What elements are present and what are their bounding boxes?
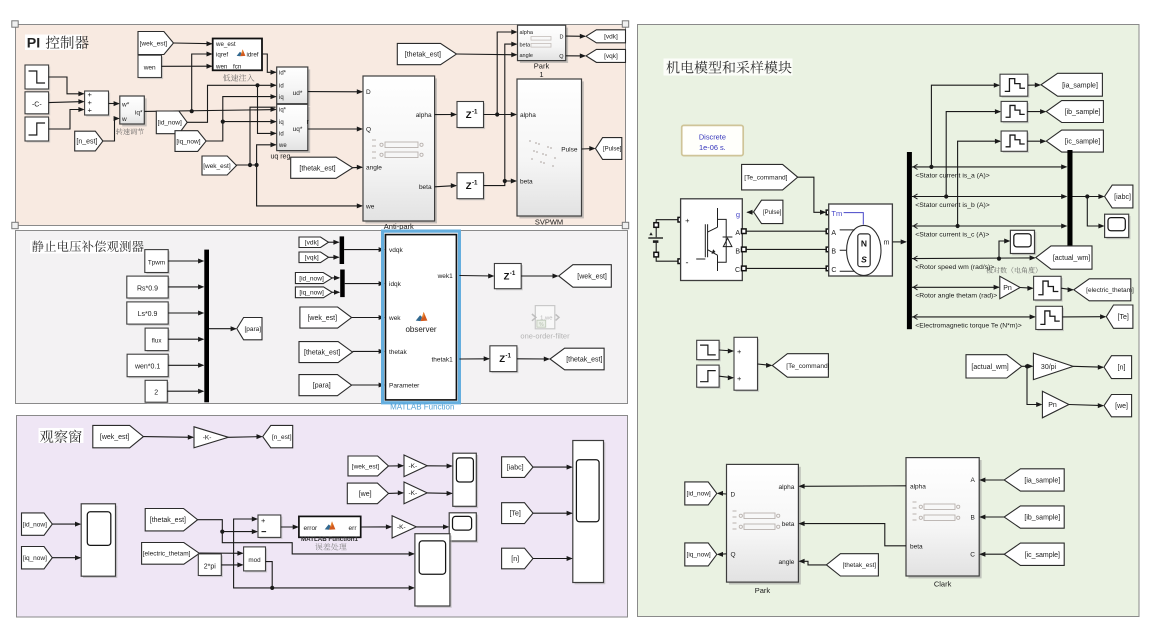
constant 2*pi [200,556,223,578]
svg-text:w: w [121,116,127,123]
svg-text:[Te]: [Te] [1118,314,1129,321]
zero-order hold ib [1003,103,1029,123]
goto tag iq_now p4 [685,543,717,566]
mod block [245,549,267,573]
svg-text:[thetak_est]: [thetak_est] [843,562,877,569]
svg-text:id*: id* [279,71,287,77]
park2 icon [733,511,780,530]
wire mod to scope and sum plus [266,562,414,588]
svg-text:one-order-filter: one-order-filter [520,331,570,340]
svg-text:[iq_now]: [iq_now] [687,552,711,559]
svg-text:<Electromagnetic torque Te (N*: <Electromagnetic torque Te (N*m)> [915,322,1021,329]
svg-text:fcn: fcn [233,64,242,71]
svg-text:S: S [861,255,867,265]
svg-text:Discrete: Discrete [699,132,726,141]
constant -C- [27,93,51,115]
ud reg block [279,69,310,106]
bus signal rotor angle wire [912,286,999,288]
from tag wek_est p3 mid [348,456,389,476]
sum block error [260,517,283,539]
svg-text:[ic_sample]: [ic_sample] [1065,139,1100,146]
svg-text:B: B [971,515,975,522]
wire gain to n_est [228,436,261,439]
wire clark alpha to park2 alpha [800,485,907,488]
svg-text:MATLAB Function: MATLAB Function [390,403,454,412]
unit delay Z3 [496,265,523,290]
wire Z4 to thetak_est goto [517,358,549,360]
svg-text:Pn: Pn [1048,402,1057,409]
unit delay Z1 [459,103,486,129]
svg-text:-K-: -K- [203,435,212,442]
big scope right [575,442,606,584]
svg-text:[actual_wm]: [actual_wm] [971,364,1008,371]
goto tag para [237,318,262,340]
svg-text:[n]: [n] [511,556,519,563]
svg-text:Parameter: Parameter [389,383,420,390]
svg-text:C: C [970,552,975,559]
svg-text:alpha: alpha [520,30,534,36]
wire wek_est to fcn we_est [174,42,212,45]
svg-text:[vdk]: [vdk] [305,240,319,247]
svg-text:[thetak_est]: [thetak_est] [405,52,441,59]
svg-text:alpha: alpha [520,112,536,119]
bus selector output chevrons [913,164,917,319]
svg-text:B: B [831,248,836,255]
svg-text:[Te_command]: [Te_command] [744,175,787,182]
svg-text:[id_now]: [id_now] [23,521,47,528]
svg-text:vdqk: vdqk [389,247,403,254]
goto tag n p4 [1104,356,1132,379]
anti-park icon [372,140,423,158]
svg-text:1e-06 s.: 1e-06 s. [699,143,726,152]
goto tag Te [1106,305,1133,328]
gain -K- we1 [404,455,427,477]
svg-text:[wek_est]: [wek_est] [352,463,380,470]
svg-text:id: id [279,84,284,90]
svg-text:<Rotor angle thetam (rad)>: <Rotor angle thetam (rad)> [915,293,997,300]
svg-text:[wek_est]: [wek_est] [100,434,130,441]
svg-text:idref: idref [246,52,258,59]
svg-text:iq: iq [279,95,284,101]
svg-text:[iabc]: [iabc] [507,465,524,472]
svg-text:<Rotor speed wm (rad/s)>: <Rotor speed wm (rad/s)> [915,264,994,271]
svg-text:iqref: iqref [216,52,228,59]
mux iabc bar [1067,150,1072,246]
bus signal torque wire [912,316,1035,318]
wire thetak_est to antipark angle [353,166,362,168]
svg-text:D: D [560,34,564,40]
scope wm [1012,232,1036,255]
svg-text:[electric_thetam]: [electric_thetam] [143,551,191,558]
wire iq_now to scope [52,557,80,559]
from tag thetak_est p3 [145,509,197,531]
small scope err [451,515,478,543]
wire mux2 to observer idqk [345,283,384,285]
svg-text:-1: -1 [510,270,516,277]
svg-text:wek1: wek1 [437,273,454,280]
svg-text:A: A [971,477,976,484]
svg-text:[vdk]: [vdk] [604,34,618,41]
svg-text:err: err [349,525,358,532]
svg-text:2: 2 [154,390,158,397]
svg-text:[thetak_est]: [thetak_est] [150,517,186,524]
wire thetak_est to park1 angle [457,53,517,56]
svg-text:[vqk]: [vqk] [305,255,319,262]
gain Pn electrical angle [1000,276,1020,298]
svg-text:[wek_est]: [wek_est] [203,163,231,170]
svg-text:beta: beta [520,42,532,48]
from tag n_est [75,131,103,151]
svg-text:beta: beta [910,544,923,551]
PMSM rotor icon [847,225,881,275]
svg-text:flux: flux [152,338,163,345]
wires inverter to motor ABC [746,230,826,232]
wire clark beta to park2 beta [800,524,907,546]
constant Rs*0.9 [128,278,169,300]
svg-text:angle: angle [778,559,794,566]
panel electromech model area [638,25,1140,617]
svg-text:[ib_sample]: [ib_sample] [1024,515,1060,522]
svg-text:Tpwm: Tpwm [148,259,165,266]
panel resize handles [12,21,18,27]
svg-text:D: D [731,492,736,499]
wire iq_now to uq.iq and ud.iq [206,97,276,141]
svg-text:MATLAB Function1: MATLAB Function1 [301,536,358,543]
svg-text:mod: mod [248,557,261,564]
from tag electric_thetam [142,543,200,565]
svg-text:A: A [831,230,836,237]
svg-text:<Stator current is_c (A)>: <Stator current is_c (A)> [915,232,989,239]
from tag wek_est p1 bottom [202,156,237,175]
step block torque 2 [698,367,720,389]
park2 block mirrored [729,467,801,585]
wire ib_sample to clark B [980,516,1004,518]
svg-text:wen: wen [215,64,228,71]
wire pulse to inverter g [747,211,753,213]
svg-text:[ic_sample]: [ic_sample] [1025,552,1060,559]
disabled one-order-filter block [532,306,559,329]
svg-text:<Stator current is_b (A)>: <Stator current is_b (A)> [915,202,989,209]
wire ud* to antipark D [308,91,362,93]
wire electric_thetam to mod [199,552,242,554]
svg-text:-1: -1 [472,108,478,115]
wire sum to PI w* [109,103,119,105]
from tag iabc p3 [502,457,533,478]
wire Z3 to wek_est goto [521,275,557,277]
wire ia_sample to clark A [980,479,1004,481]
svg-text:idqk: idqk [389,281,402,288]
sum block Sum1 [86,93,110,117]
svg-text:+: + [737,347,742,356]
from tag id_now p1 [156,111,187,134]
svg-text:we_est: we_est [215,41,236,48]
from tag id_now p2 [295,273,332,284]
svg-text:beta: beta [419,184,432,191]
svg-text:uq*: uq* [293,126,303,133]
wire wek_est to uq.we iq* and antipark.we [236,164,257,166]
svpwm icon dots [529,140,556,167]
big scope mid [417,536,452,608]
svg-text:30/pi: 30/pi [1041,364,1057,371]
PI speed regulator block [122,98,147,126]
svg-text:id: id [279,132,284,138]
from tag Te_command [742,164,798,190]
svg-text:Z: Z [499,354,505,365]
wire gain to small scope [416,526,448,528]
svg-text:[n_est]: [n_est] [272,434,292,441]
goto tag ia_sample [1041,73,1102,96]
from tag iq_now p2 [295,287,332,298]
goto tag ic_sample [1046,130,1103,152]
wire park2 D to id_now [718,492,727,495]
svg-text:[thetak_est]: [thetak_est] [299,165,335,172]
svg-text:iq*: iq* [135,110,143,117]
universal bridge inverter block [681,199,743,281]
zero-order hold theta [1035,278,1063,302]
from tag Pulse p4 [754,200,783,223]
svg-text:[Te_command]: [Te_command] [786,363,829,370]
svg-text:[ib_sample]: [ib_sample] [1065,109,1101,116]
from tag thetak_est p2 [299,342,353,363]
svg-text:[ia_sample]: [ia_sample] [1024,477,1060,484]
wire park1 Q to vqk [566,55,585,57]
svg-text:Q: Q [559,54,564,60]
svg-text:[Pulse]: [Pulse] [603,147,622,153]
svg-text:m: m [884,240,890,247]
wire 2pi to mod [221,564,242,566]
svg-text:we: we [278,143,287,149]
powergui Discrete block [682,125,744,155]
svg-text:thetak1: thetak1 [431,357,453,364]
scope id iq [83,506,117,578]
bus signal rotor speed wire [912,257,1035,260]
svg-text:alpha: alpha [910,484,926,491]
svg-text:Anti-park: Anti-park [384,222,414,231]
svg-text:B: B [735,248,740,255]
svg-text:alpha: alpha [416,112,432,119]
anti-park subsystem block [365,78,437,223]
wire Z2 to svpwm beta and park1 beta [484,181,516,186]
svg-text:[Te]: [Te] [510,511,521,518]
gain -K- top [194,427,228,448]
mux idqk bar [340,270,345,298]
from tag vdk [299,237,329,248]
svg-text:iq: iq [279,120,284,126]
from tag iq_now p3 [22,547,53,569]
bus signal is_b wire [912,196,1066,198]
wire step2 to sum [49,77,84,94]
svg-text:-K-: -K- [408,463,417,470]
svg-text:thetak: thetak [389,349,407,356]
from tag we p3 [347,483,388,504]
step block Step2 (down) [27,67,51,91]
svg-text:iq*: iq* [279,108,287,114]
svg-text:Q: Q [731,551,736,558]
constant wen [140,57,164,79]
wires tags to big scope [533,466,572,468]
svg-text:Tm: Tm [831,209,842,218]
svg-text:SVPWM: SVPWM [535,218,563,227]
svg-text:[id_now]: [id_now] [299,275,324,282]
svpwm block [519,81,584,218]
svg-text:error: error [304,525,319,532]
svg-text:-1: -1 [505,353,511,360]
svg-text:<Stator current is_a (A)>: <Stator current is_a (A)> [915,173,989,180]
svg-text:Z: Z [504,271,510,282]
from tag thetak_est mid [291,157,353,178]
scope iabc [1106,216,1130,239]
goto tag vqk [586,49,626,62]
goto tag electric_thetam [1074,279,1131,301]
wire svpwm pulse to tag [582,148,595,151]
title PI controller [25,35,82,51]
wire motor m to bus selector [892,241,905,243]
wires gains to scope [427,465,452,467]
svg-text:PI: PI [27,36,40,52]
from tag thetak_est p4 [826,554,878,576]
gain -K- we2 [404,482,427,504]
svg-text:%: % [539,322,544,328]
label low speed injection [223,74,255,81]
svg-text:[iq_now]: [iq_now] [23,555,47,562]
wire park1 D to vdk [566,35,585,37]
step block torque 1 [698,342,720,361]
bus selector bar [907,152,912,329]
svg-text:[thetak_est]: [thetak_est] [566,357,602,364]
scope wek we [455,455,479,508]
goto tag Pulse [596,138,622,160]
goto tag Te_command [772,354,828,378]
svg-text:wen*0.1: wen*0.1 [134,364,160,371]
zero-order hold ia [1002,76,1030,98]
wire error to gain [361,526,391,528]
zero-order hold te [1037,308,1064,331]
wire actual_wm to 30pi and Pn2 [1022,365,1033,367]
wires vdk vqk to mux [329,241,339,243]
constant flux [147,330,170,353]
gain Pn2 [1042,391,1069,418]
panel watch-window area [17,416,628,618]
clark icon [913,502,960,521]
svg-text:Rs*0.9: Rs*0.9 [137,285,158,292]
wire uq* to antipark Q [308,128,362,130]
inverter IGBT icon [696,208,732,271]
svg-text:[actual_wm]: [actual_wm] [1053,255,1090,262]
svg-text:[thetak_est]: [thetak_est] [304,350,340,357]
wire mux to iabc tag and scope [1073,196,1104,198]
from tag n p3 [502,548,533,569]
svg-text:ud*: ud* [293,90,303,97]
svg-text:1: 1 [539,70,543,79]
svg-text:wek: wek [388,315,401,322]
svg-text:we: we [365,203,375,210]
wire observer thetak1 to Z4 [459,358,488,360]
observer MATLAB function block selected [383,231,460,403]
svg-text:Pulse: Pulse [561,147,578,154]
svg-text:[wek_est]: [wek_est] [307,315,337,322]
motor input ports [826,210,831,215]
goto tag vdk [586,30,626,43]
wire thetak_est to park2 angle [800,561,827,565]
wire PI iq* to uq reg and fcn iqref [144,110,275,112]
goto tag n_est [263,425,293,447]
svg-text:g: g [736,210,740,219]
from tag actual_wm [966,355,1022,378]
svg-text:-K-: -K- [397,524,406,531]
svg-text:[para]: [para] [313,383,331,390]
svg-text:Pn: Pn [1003,285,1012,292]
wire antipark beta to Z2 [435,186,456,187]
wire id_now to scope [52,523,80,525]
svg-text:+: + [88,106,93,115]
PMSM machine block [829,204,893,276]
inverter output ports [742,229,747,234]
label error handling [315,543,347,550]
svg-text:+: + [261,516,266,525]
wire mux1 to observer vdqk [344,249,384,251]
wire Z1 to svpwm alpha and park1 alpha [484,114,516,116]
svg-text:beta: beta [782,521,795,528]
constant Tpwm [146,251,169,274]
mux vdqk bar [340,236,345,264]
svg-text:[id_now]: [id_now] [158,120,182,127]
from tag thetak_est top [397,43,456,64]
wire mux to para [209,328,236,330]
svg-text:Z: Z [466,110,472,121]
title observer panel [30,240,143,254]
svg-text:Q: Q [366,126,371,133]
goto tag thetak_est p2 [550,348,604,370]
svg-text:C: C [735,267,740,274]
fcn low-speed injection block [213,39,262,71]
svg-text:-K-: -K- [408,490,417,497]
svg-text:angle: angle [520,53,533,59]
wire wen to fcn [162,65,212,67]
svg-text:wen: wen [143,65,156,72]
from tag id_now p3 [22,513,53,535]
svg-text:[Pulse]: [Pulse] [763,210,782,216]
constant Ls*0.9 [128,304,169,326]
svg-text:observer: observer [405,325,436,334]
mux parameter bar [204,250,209,403]
svg-text:Park: Park [755,586,771,595]
svg-text:[ia_sample]: [ia_sample] [1062,82,1098,89]
svg-text:[electric_thetam]: [electric_thetam] [1086,287,1134,294]
svg-text:[iq_now]: [iq_now] [299,290,324,297]
svg-text:-: - [686,257,689,267]
wire ic_sample to clark C [980,553,1004,555]
svg-text:Z: Z [466,181,472,192]
wires constants to mux [168,260,203,262]
unit delay Z4 [492,347,519,373]
goto tag actual_wm [1036,246,1092,269]
constant 2 [147,382,169,404]
svg-text:+: + [737,374,742,383]
wire n_est to PI w [103,119,119,142]
from tag iq_now p1 [175,131,206,152]
svg-text:angle: angle [366,165,382,172]
label pole pairs electrical angle [986,267,1037,274]
svg-text:[para]: [para] [244,326,261,333]
svg-text:[iq_now]: [iq_now] [176,138,200,145]
wire step1 to sum [49,110,84,130]
gain -K- err [392,516,416,538]
step block Step1 (up) [27,119,51,143]
wire id_now to ud.id and uq.id [187,85,275,122]
title watch window [39,428,84,443]
bus signal is_a wire [912,166,1066,168]
from tag wek_est p3 top [93,425,144,447]
